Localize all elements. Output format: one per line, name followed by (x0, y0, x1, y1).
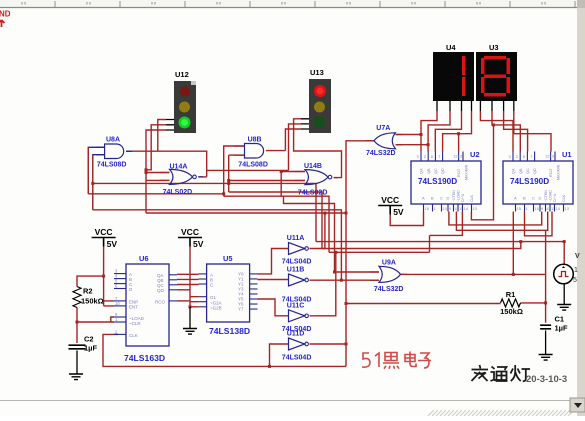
wire VCC2 stem (190, 246, 199, 302)
wire bus L5 (93, 210, 342, 280)
junction (268, 365, 271, 368)
junction (323, 212, 326, 215)
svg-text:74LS190D: 74LS190D (510, 177, 549, 186)
wire R1 line (346, 303, 501, 305)
ground symbol fragment red (0, 20, 5, 27)
svg-text:U13: U13 (310, 68, 324, 77)
svg-text:R2: R2 (83, 287, 93, 296)
wire U11D out (310, 343, 347, 345)
wire U14A input 1 (146, 172, 170, 174)
wire U11C out (310, 252, 336, 315)
decoder U5 74LS138D (199, 264, 258, 322)
inverter U11D 74LS04D (289, 338, 305, 350)
junction (345, 302, 348, 305)
junction (334, 251, 337, 254)
inverter U11C 74LS04D (289, 310, 305, 322)
wire C2 to gnd (76, 351, 78, 375)
resistor R1 150k (501, 299, 521, 307)
svg-text:15: 15 (517, 206, 522, 211)
svg-text:13: 13 (565, 206, 570, 211)
svg-text:C: C (440, 196, 443, 201)
svg-text:1µF: 1µF (84, 344, 97, 353)
svg-text:~LOAD: ~LOAD (549, 190, 553, 202)
wire 7seg U3 pins (480, 101, 513, 111)
wire yellow cross line (207, 169, 289, 171)
seven-segment display U4 (433, 52, 474, 101)
wire R2 bottom node (77, 308, 114, 344)
wire U9A out (401, 273, 546, 275)
svg-text:D/~U: D/~U (461, 193, 465, 202)
svg-text:13: 13 (473, 206, 478, 211)
wire U3 p2-U1 (492, 111, 520, 152)
svg-text:~CTEN: ~CTEN (544, 190, 548, 202)
svg-text:QD: QD (441, 168, 445, 174)
wire U13 green pin to U8B (266, 129, 301, 151)
or gate U9A 74LS32D (379, 266, 401, 282)
svg-text:74LS138D: 74LS138D (209, 326, 250, 336)
nor gate U14B 74LS02D (305, 170, 328, 185)
counter U6 74LS163D (114, 264, 177, 346)
svg-text:CLK: CLK (562, 194, 566, 202)
svg-text:74LS04D: 74LS04D (282, 355, 312, 362)
junction (544, 301, 547, 304)
top ruler (0, 0, 585, 8)
wire U13 red pin to U14B (294, 119, 342, 178)
svg-text:D: D (447, 196, 450, 201)
wire RCO-G1 (177, 300, 190, 302)
svg-text:74LS163D: 74LS163D (124, 353, 165, 363)
svg-text:U11C: U11C (287, 302, 305, 309)
ground under C1 (539, 355, 553, 361)
svg-text:B: B (523, 196, 526, 201)
svg-text:U14A: U14A (170, 164, 188, 171)
wire U12 red pin to bus (158, 120, 166, 152)
svg-text:U5: U5 (223, 254, 233, 263)
wire bus L2 (229, 192, 322, 249)
wire U13 yellow pin (289, 124, 302, 170)
clock source V1 (554, 253, 580, 284)
svg-text:U3: U3 (489, 43, 499, 52)
counter U2 74LS190D (411, 152, 481, 212)
counter U1 74LS190D (503, 152, 573, 212)
wire bus L4b (284, 196, 335, 272)
power VCC1 5V (92, 227, 118, 249)
svg-text:U11D: U11D (287, 331, 305, 338)
svg-text:QA: QA (512, 168, 516, 174)
svg-text:A: A (514, 196, 517, 201)
svg-text:10: 10 (443, 206, 448, 211)
junction (457, 132, 460, 135)
wire U8A input 2 (93, 155, 105, 210)
junction (333, 271, 336, 274)
svg-text:B: B (431, 196, 434, 201)
wire U5.Y0 to U11A (258, 249, 289, 274)
svg-text:MAX/MIN: MAX/MIN (465, 164, 469, 180)
wire U14A input 2 (146, 179, 170, 181)
wire G2 gnd link (190, 302, 199, 307)
svg-text:U8A: U8A (106, 137, 120, 144)
junction (145, 168, 148, 171)
junction (563, 240, 566, 243)
capacitor C1 1uF (540, 325, 551, 329)
svg-text:U11B: U11B (287, 267, 305, 274)
svg-text:ND: ND (0, 10, 11, 19)
wire U1 clk drop (512, 212, 514, 275)
wire U3 p4-U1 (514, 111, 551, 152)
power VCC2 5V (178, 227, 204, 249)
wire nest y235.8b (525, 212, 553, 236)
svg-text:D: D (539, 196, 542, 201)
svg-text:G1: G1 (210, 295, 217, 300)
wire U4 p3-U2 (435, 111, 461, 152)
svg-text:QC: QC (434, 168, 438, 174)
wire bus L4 (224, 194, 329, 253)
junction (345, 343, 348, 346)
wire U4 p2-U2 (428, 111, 450, 152)
junction (512, 273, 515, 276)
wire U4 p4-U2 (443, 111, 472, 152)
wire U3 p3-U1 (504, 111, 528, 152)
traffic light U12 (174, 81, 196, 133)
wire QB-B (177, 278, 199, 280)
svg-text:U7A: U7A (376, 125, 390, 132)
junction (519, 240, 522, 243)
svg-text:U4: U4 (446, 43, 456, 52)
svg-text:ENT: ENT (129, 305, 138, 310)
text jiaotongdeng title (472, 365, 531, 381)
svg-text:C1: C1 (555, 315, 565, 324)
wire U11D input tap (270, 344, 289, 366)
svg-text:13: 13 (458, 154, 463, 159)
gate pin stubs navy (96, 135, 407, 281)
wire U8A in2 bus (92, 155, 94, 210)
junction (102, 275, 105, 278)
wire VCC1 stem (104, 246, 114, 306)
capacitor C2 1uF (69, 345, 86, 349)
svg-text:~LOAD: ~LOAD (457, 190, 461, 202)
wire U8B in2 drop (229, 155, 245, 192)
ground under U5 (183, 329, 197, 335)
svg-text:15: 15 (425, 206, 430, 211)
svg-text:VCC: VCC (381, 195, 399, 205)
svg-text:QA: QA (420, 168, 424, 174)
svg-text:~G2B: ~G2B (210, 306, 222, 311)
wire U4 p1-U2 (421, 111, 437, 152)
ground under V1 (557, 305, 571, 311)
wire U11B out to U9A (310, 279, 380, 281)
junction (340, 279, 343, 282)
wire V1 top (563, 242, 565, 265)
svg-text:Y7: Y7 (238, 307, 244, 312)
svg-text:U8B: U8B (248, 137, 262, 144)
wire U8A output to U14A (126, 151, 207, 177)
svg-text:150kΩ: 150kΩ (81, 297, 104, 306)
wire U3 p1-U1 (480, 111, 513, 152)
svg-text:QB: QB (427, 168, 431, 174)
svg-text:QD: QD (533, 168, 537, 174)
svg-text:U12: U12 (175, 70, 189, 79)
right scrollbar strip (577, 0, 585, 416)
junction (492, 123, 495, 126)
junction (345, 212, 348, 215)
svg-text:VCC: VCC (181, 227, 199, 237)
wire 7seg U4 pins (437, 101, 472, 111)
wire U8A in1 bus (87, 147, 89, 194)
wire mid drop x493.5 (471, 125, 493, 220)
power VCC3 5V (378, 195, 404, 217)
svg-text:CLK: CLK (470, 194, 474, 202)
svg-text:RCO: RCO (549, 169, 553, 177)
svg-text:150kΩ: 150kΩ (500, 307, 523, 316)
svg-text:D/~U: D/~U (553, 193, 557, 202)
svg-text:1µF: 1µF (555, 324, 568, 333)
svg-text:74LS04D: 74LS04D (282, 259, 312, 266)
svg-text:74LS32D: 74LS32D (366, 150, 396, 157)
nor gate U14A 74LS02D (170, 169, 193, 184)
wire nest y224.9 (449, 212, 542, 225)
svg-text:5: 5 (573, 277, 577, 284)
wire U13 pin stubs (301, 119, 309, 129)
junction (189, 305, 192, 308)
svg-text:1: 1 (574, 267, 578, 274)
svg-text:74LS32D: 74LS32D (374, 286, 404, 293)
ground under C2 (69, 374, 83, 380)
wire U5.Y5 to U11C (258, 299, 289, 316)
wire QC-C (177, 284, 199, 286)
wire U7A input 1 (396, 134, 422, 136)
svg-text:74LS02D: 74LS02D (163, 189, 193, 196)
svg-text:R1: R1 (506, 290, 516, 299)
svg-text:A: A (422, 196, 425, 201)
svg-text:20-3-10-3: 20-3-10-3 (526, 374, 567, 385)
wire bus y252.3 (329, 251, 430, 253)
inverter U11B 74LS04D (289, 274, 305, 286)
junction (91, 182, 94, 185)
wire QA-A (177, 273, 199, 275)
svg-text:U14B: U14B (304, 163, 322, 170)
wire bus L6 (146, 212, 346, 214)
junction (427, 143, 430, 146)
junction (76, 321, 79, 324)
wire R2 top (77, 276, 104, 286)
wire nest y235.4 (430, 212, 463, 253)
svg-text:74LS08D: 74LS08D (97, 162, 127, 169)
svg-text:5V: 5V (193, 239, 204, 249)
svg-text:U11A: U11A (287, 235, 305, 242)
junction (420, 133, 423, 136)
wire U9A in1 (335, 271, 380, 273)
wire bus L3 (88, 146, 244, 194)
svg-text:~CLR: ~CLR (129, 321, 141, 326)
junction (227, 179, 230, 182)
traffic light U13 (309, 79, 331, 133)
wire V1 bottom (563, 284, 565, 305)
and gate U8B 74LS08D (245, 144, 264, 159)
wire VCC3 feed (390, 212, 423, 226)
wire U8A input 1 (88, 147, 104, 194)
text 51hei dianzi red (362, 352, 431, 369)
resistor R2 150k (73, 287, 81, 308)
junction (280, 170, 283, 173)
svg-text:QD: QD (157, 288, 165, 293)
wire U2 pin16 (458, 134, 460, 152)
wire nest y230.3 (456, 212, 547, 231)
svg-text:14: 14 (464, 206, 469, 211)
svg-text:CLK: CLK (129, 333, 138, 338)
svg-text:10: 10 (115, 301, 120, 306)
wire U14A out stub (198, 176, 206, 178)
junction (227, 182, 230, 185)
svg-text:74LS08D: 74LS08D (238, 162, 268, 169)
wire R1 right node (521, 230, 546, 322)
wire U7A input 2 (396, 144, 429, 146)
svg-text:VCC: VCC (95, 227, 113, 237)
svg-text:~CTEN: ~CTEN (452, 190, 456, 202)
svg-text:74LS190D: 74LS190D (418, 177, 457, 186)
svg-text:QB: QB (519, 168, 523, 174)
svg-text:C2: C2 (84, 335, 94, 344)
wire U14B input 2 (229, 180, 305, 182)
svg-text:5V: 5V (393, 207, 404, 217)
junction (145, 171, 148, 174)
svg-text:C: C (532, 196, 535, 201)
svg-text:MAX/MIN: MAX/MIN (557, 164, 561, 180)
junction (222, 192, 225, 195)
svg-text:U6: U6 (139, 254, 149, 263)
wire U14B input 1 (281, 172, 305, 197)
wire U12 green pin (146, 130, 166, 213)
wire U11A out (310, 213, 325, 249)
svg-text:U1: U1 (562, 150, 572, 159)
svg-text:10: 10 (535, 206, 540, 211)
wire U12 yellow pin (146, 125, 166, 170)
svg-text:13: 13 (550, 154, 555, 159)
wire bus y248.5 (322, 242, 521, 249)
or gate U7A 74LS32D mirrored (374, 133, 396, 149)
inverter U11A 74LS04D (289, 243, 305, 255)
wire U7A output left-down (346, 141, 374, 367)
svg-text:14: 14 (556, 206, 561, 211)
svg-text:QC: QC (526, 168, 530, 174)
wire bus L1 (93, 183, 316, 241)
bottom status strip (0, 398, 585, 416)
svg-text:5V: 5V (107, 239, 118, 249)
svg-text:U2: U2 (470, 150, 480, 159)
svg-text:U9A: U9A (382, 260, 396, 267)
wire gnd stem U5 (189, 307, 191, 329)
wire U6 clk loop bottom bus (103, 334, 346, 366)
wire C1 bottom (545, 331, 547, 355)
wire bus y241.6 (316, 241, 564, 243)
svg-text:RCO: RCO (155, 300, 165, 305)
and gate U8A 74LS08D (105, 144, 124, 159)
wire U12 pin stubs (166, 120, 174, 131)
seven-segment display U3 (476, 52, 517, 101)
wire QD stub (177, 289, 190, 291)
svg-text:74LS02D: 74LS02D (298, 190, 328, 197)
wire U5.Y1 to U11B (258, 279, 289, 281)
svg-text:RCO: RCO (457, 169, 461, 177)
svg-text:V: V (575, 253, 580, 260)
